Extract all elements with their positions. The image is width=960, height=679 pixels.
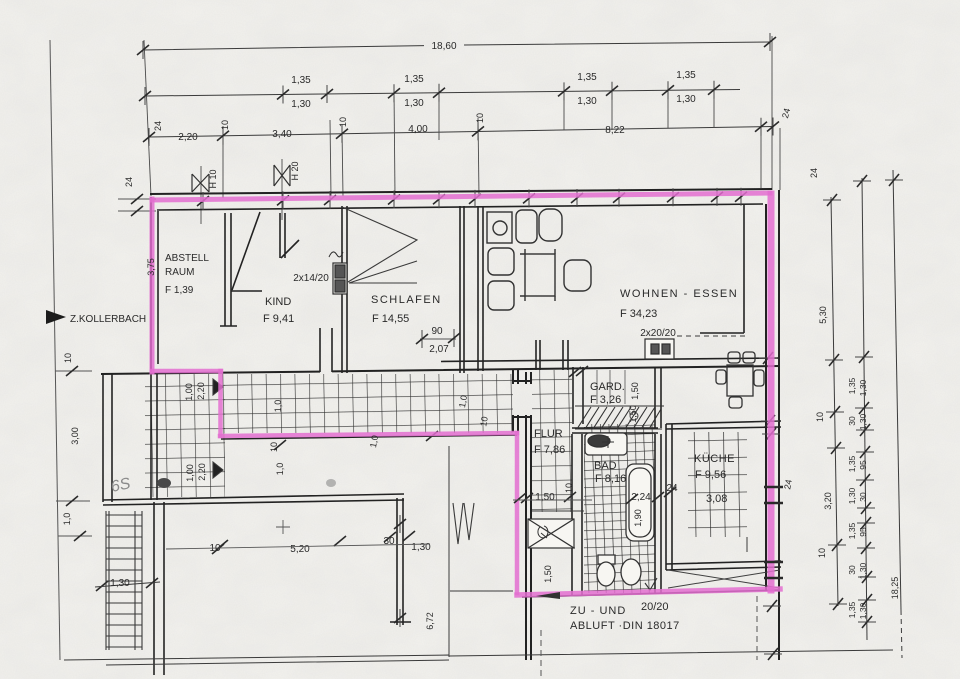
svg-text:WOHNEN - ESSEN: WOHNEN - ESSEN [620, 288, 738, 300]
svg-text:KÜCHE: KÜCHE [694, 453, 735, 465]
svg-text:SCHLAFEN: SCHLAFEN [371, 294, 442, 306]
svg-text:1,30: 1,30 [858, 379, 868, 396]
svg-text:30: 30 [847, 565, 857, 575]
svg-text:3,40: 3,40 [272, 129, 292, 140]
svg-text:1,30: 1,30 [847, 487, 857, 504]
svg-text:1,50: 1,50 [628, 405, 638, 423]
svg-text:1,0: 1,0 [368, 434, 380, 448]
svg-text:10: 10 [817, 548, 827, 558]
svg-text:ZU - UND: ZU - UND [570, 605, 626, 617]
svg-text:1,35: 1,35 [847, 601, 857, 618]
svg-text:95: 95 [858, 527, 868, 537]
svg-text:FLUR: FLUR [534, 428, 563, 440]
svg-text:1,0: 1,0 [62, 513, 72, 526]
svg-text:1,30: 1,30 [676, 94, 696, 105]
svg-text:10: 10 [63, 353, 73, 363]
svg-text:1,35: 1,35 [847, 377, 857, 394]
svg-text:1,50: 1,50 [543, 565, 553, 583]
svg-text:1,35: 1,35 [291, 75, 311, 86]
svg-text:1,0: 1,0 [457, 394, 469, 408]
svg-text:4,00: 4,00 [408, 124, 428, 135]
svg-text:1,90: 1,90 [633, 509, 643, 527]
svg-text:BAD: BAD [594, 460, 617, 472]
svg-text:3,75: 3,75 [146, 258, 156, 276]
svg-text:24: 24 [782, 479, 794, 491]
svg-text:1,30: 1,30 [110, 578, 130, 589]
svg-text:1,30: 1,30 [858, 413, 868, 430]
svg-text:90: 90 [431, 326, 443, 337]
svg-text:2,20: 2,20 [197, 463, 207, 481]
svg-text:Z.KOLLERBACH: Z.KOLLERBACH [70, 314, 146, 325]
svg-text:2,20: 2,20 [196, 382, 206, 400]
svg-text:3,20: 3,20 [823, 492, 833, 510]
svg-text:5,20: 5,20 [290, 544, 310, 555]
svg-text:1,35: 1,35 [404, 74, 424, 85]
svg-text:1,30: 1,30 [291, 99, 311, 110]
svg-text:2x20/20: 2x20/20 [640, 328, 676, 339]
svg-text:6,72: 6,72 [425, 612, 435, 630]
svg-text:10: 10 [475, 113, 485, 123]
svg-text:30: 30 [847, 416, 857, 426]
svg-text:18,60: 18,60 [431, 41, 456, 52]
svg-text:F 9,56: F 9,56 [695, 469, 726, 481]
svg-text:1,0: 1,0 [275, 463, 285, 476]
svg-text:95: 95 [858, 460, 868, 470]
svg-text:2,07: 2,07 [429, 344, 449, 355]
svg-text:10: 10 [478, 416, 490, 428]
svg-text:KIND: KIND [265, 296, 291, 308]
svg-text:F 1,39: F 1,39 [165, 285, 194, 296]
svg-text:30: 30 [858, 492, 868, 502]
svg-text:1,50: 1,50 [535, 492, 555, 503]
svg-text:24: 24 [153, 121, 163, 131]
svg-text:1,0: 1,0 [273, 400, 283, 413]
svg-text:3,00: 3,00 [70, 427, 80, 445]
svg-text:2,20: 2,20 [178, 132, 198, 143]
svg-text:F 3,26: F 3,26 [590, 394, 621, 406]
svg-text:1,30: 1,30 [577, 96, 597, 107]
svg-text:RAUM: RAUM [165, 267, 194, 278]
svg-text:24: 24 [124, 177, 134, 187]
svg-text:F 9,41: F 9,41 [263, 313, 294, 325]
svg-text:F 34,23: F 34,23 [620, 308, 657, 320]
svg-text:H 20: H 20 [290, 161, 300, 180]
svg-text:1,30: 1,30 [858, 562, 868, 579]
svg-text:2x14/20: 2x14/20 [293, 273, 329, 284]
svg-text:20/20: 20/20 [641, 601, 669, 613]
svg-text:10: 10 [815, 412, 825, 422]
svg-text:1,30: 1,30 [858, 602, 868, 619]
svg-text:1,35: 1,35 [676, 70, 696, 81]
svg-text:24: 24 [666, 483, 678, 494]
svg-text:ABLUFT ·DIN 18017: ABLUFT ·DIN 18017 [570, 620, 680, 632]
svg-text:24: 24 [809, 168, 819, 178]
svg-text:1,00: 1,00 [185, 464, 195, 482]
svg-text:F 14,55: F 14,55 [372, 313, 409, 325]
svg-text:GARD.: GARD. [590, 381, 625, 393]
svg-text:3,08: 3,08 [706, 493, 727, 505]
svg-text:1,00: 1,00 [184, 383, 194, 401]
svg-text:10: 10 [338, 117, 348, 127]
svg-text:1,35: 1,35 [847, 522, 857, 539]
svg-text:ABSTELL: ABSTELL [165, 253, 209, 264]
svg-text:1,35: 1,35 [577, 72, 597, 83]
svg-text:1,50: 1,50 [630, 382, 640, 400]
svg-text:18,25: 18,25 [890, 577, 900, 600]
svg-text:F 8,16: F 8,16 [595, 473, 626, 485]
svg-text:F 7,86: F 7,86 [534, 444, 565, 456]
svg-text:5,30: 5,30 [818, 306, 828, 324]
svg-text:1,35: 1,35 [847, 455, 857, 472]
svg-text:10: 10 [564, 483, 574, 493]
svg-text:1,30: 1,30 [404, 98, 424, 109]
svg-text:10: 10 [220, 120, 230, 130]
svg-text:8,22: 8,22 [605, 125, 625, 136]
